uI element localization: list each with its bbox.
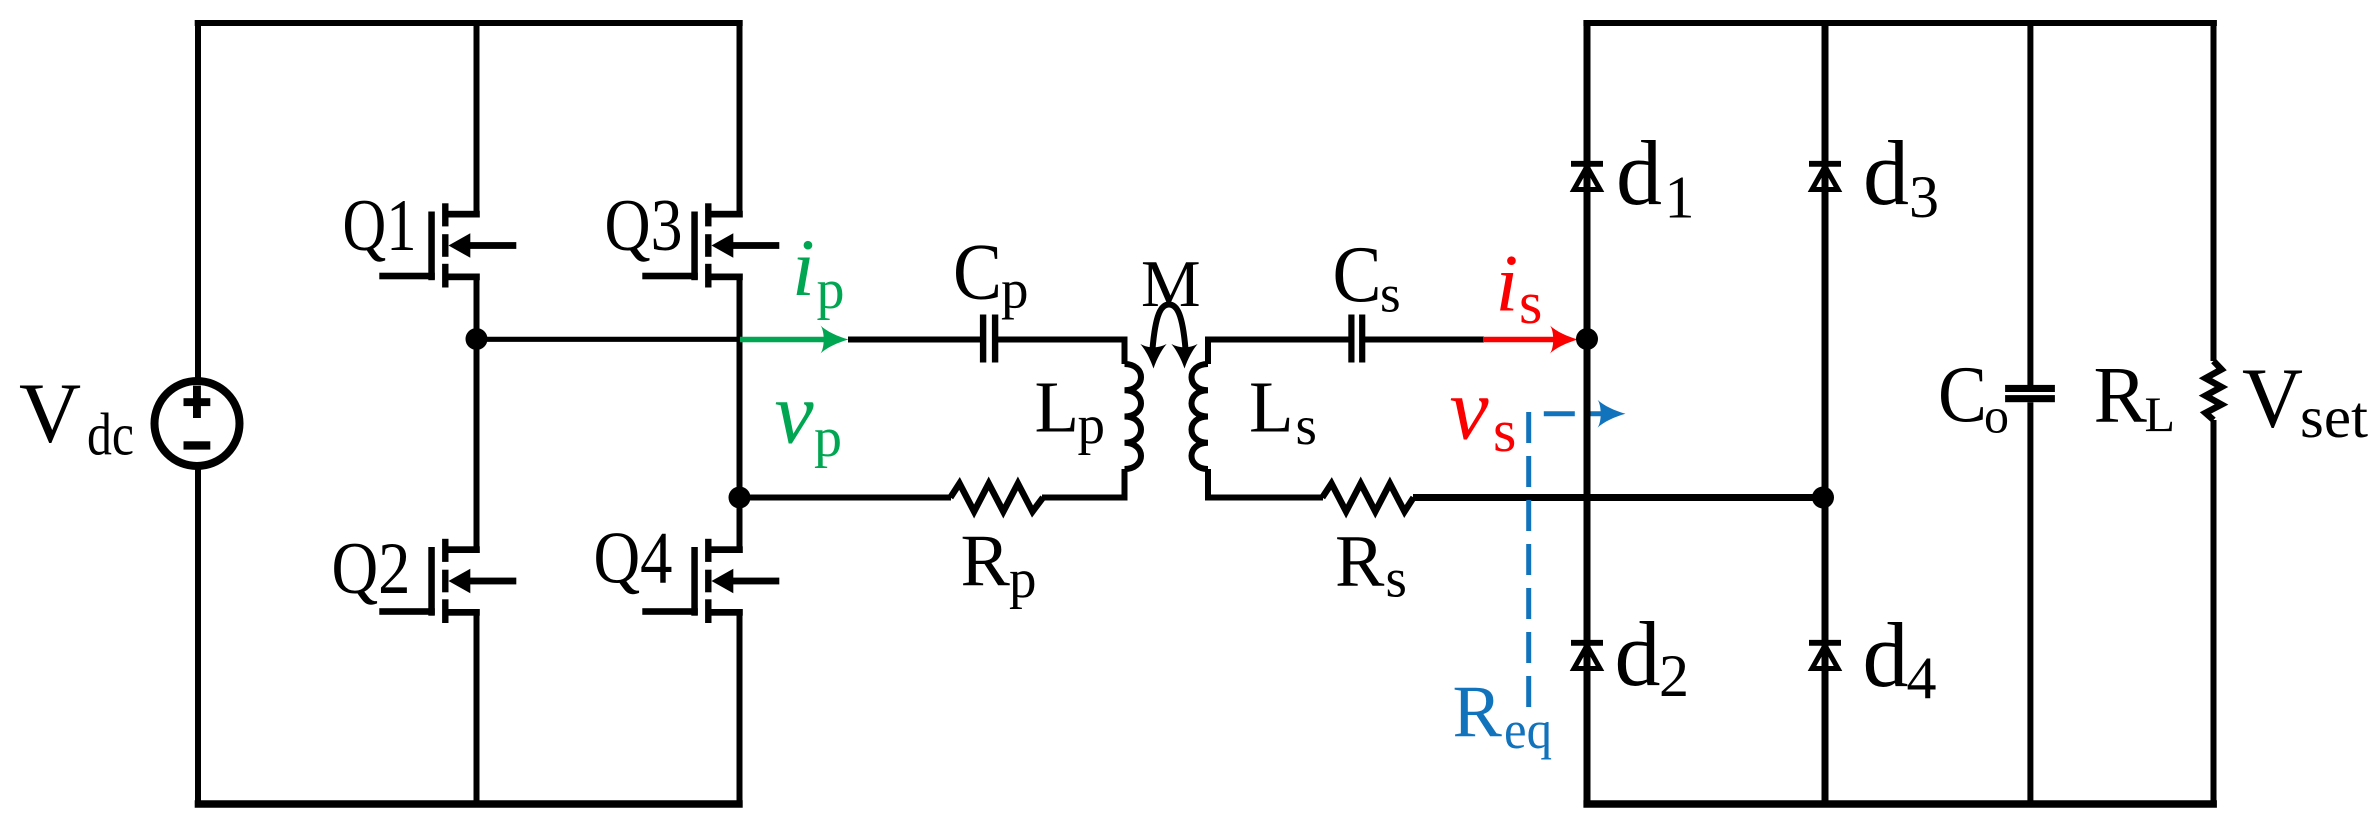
source Vdc circle [155,381,240,466]
svg-text:3: 3 [1909,164,1939,230]
svg-text:L: L [1249,366,1294,447]
wire bottom rail left box [195,800,743,808]
svg-text:s: s [1296,395,1317,456]
svg-text:R: R [961,521,1011,603]
svg-text:d: d [1863,604,1909,706]
transistor Q4 [642,539,779,623]
svg-text:dc: dc [87,402,134,468]
wire from ip arrow to Cp [848,337,981,343]
node C is node on rectifier left leg [1576,328,1598,350]
node D secondary bottom on d3d4 leg [1812,487,1834,509]
wire Cs to is arrow [1365,337,1484,343]
wire middle leg top (Q1 drain) [474,23,480,218]
current arrow is (red) [1483,326,1578,354]
wire leg Co upper [2027,20,2033,385]
svg-text:Q3: Q3 [605,185,683,267]
svg-text:4: 4 [1907,645,1937,711]
svg-text:R: R [2094,352,2148,440]
svg-text:p: p [1009,549,1037,610]
svg-text:p: p [1078,395,1106,456]
current arrow ip (green) [740,326,849,354]
svg-text:C: C [1333,231,1382,319]
svg-text:V: V [19,365,81,461]
wire leg d1 d2 [1584,20,1591,807]
svg-text:s: s [1386,548,1407,609]
svg-text:2: 2 [1659,643,1689,709]
wire leg RL upper [2211,20,2217,361]
capacitor Cs [1348,315,1365,363]
diode d4 [1809,643,1841,669]
capacitor Co [2005,385,2055,402]
svg-text:i: i [1496,238,1519,329]
wire Rp to vp node [740,495,952,501]
node B bridge midpoint Q3-Q4 (vp node) [729,487,751,509]
wire secondary coil top to Cs [1208,340,1349,365]
Vdc plus sign [184,386,211,418]
svg-text:s: s [1519,270,1542,336]
resistor Rp [950,484,1043,512]
svg-text:set: set [2300,384,2369,450]
svg-text:p: p [817,259,845,321]
wire leg d3 d4 [1822,20,1829,807]
wire primary coil bottom to Rp [1042,469,1125,498]
svg-text:i: i [792,222,815,313]
transistor Q1 [379,203,516,287]
wire right leg bottom (Q4 source) [737,609,743,807]
svg-text:o: o [1984,388,2009,444]
svg-text:eq: eq [1504,700,1552,760]
diode d1 [1571,164,1603,190]
svg-text:L: L [1035,367,1080,448]
wire top rail left box [195,20,743,26]
inductor Ls (secondary winding, bumps to the left) [1192,364,1209,469]
wire left rail above Vdc [195,20,201,381]
svg-text:R: R [1453,672,1503,754]
svg-text:p: p [814,407,842,469]
svg-text:v: v [1450,362,1490,459]
wire leg Co lower [2027,402,2033,807]
svg-text:L: L [2145,386,2176,442]
svg-text:v: v [775,366,815,463]
svg-text:C: C [953,229,1002,317]
inductor Lp (primary winding, bumps to the right) [1125,364,1142,469]
wire secondary coil bottom to Rs [1208,469,1323,498]
dashed arrow Req horizontal [1544,411,1610,416]
svg-text:1: 1 [1665,165,1695,231]
wire right leg top (Q3 drain) [737,23,743,218]
wire middle leg bottom (Q2 source) [474,609,480,807]
wire left rail below Vdc [195,466,201,807]
transistor Q2 [379,539,516,623]
wire top rail rectifier [1583,20,2216,26]
svg-text:Q1: Q1 [343,185,417,267]
svg-text:p: p [1001,259,1029,320]
svg-text:V: V [2242,350,2303,446]
svg-text:s: s [1493,398,1516,464]
wire bottom rail rectifier [1583,800,2216,808]
svg-text:Q4: Q4 [594,518,673,600]
wire bridge midpoint to right leg [473,337,742,342]
svg-text:d: d [1863,122,1909,224]
diode d2 [1571,643,1603,669]
wire Cp to primary coil top [998,340,1125,365]
svg-text:C: C [1938,351,1987,439]
mutual coupling arc with two arrowheads [1153,305,1186,350]
svg-text:R: R [1335,521,1385,603]
Vdc minus sign [184,441,211,449]
wire Rs to rectifier node [1413,494,1823,501]
wire leg RL lower [2211,420,2217,807]
resistor Rs [1322,484,1413,512]
transistor Q3 [642,203,779,287]
diode d3 [1809,164,1841,190]
svg-text:Q2: Q2 [332,528,411,610]
svg-text:s: s [1380,266,1401,324]
wire right leg mid (Q3 source to Q4 drain) [737,274,743,554]
svg-text:M: M [1141,247,1201,321]
svg-text:d: d [1616,122,1662,224]
dashed line Req vertical [1526,412,1531,716]
resistor RL [2206,361,2222,420]
capacitor Cp [980,315,998,363]
svg-text:d: d [1615,603,1661,705]
node A bridge midpoint Q1-Q2 [466,328,488,350]
wire middle leg mid (Q1 source to Q2 drain) [474,274,480,554]
